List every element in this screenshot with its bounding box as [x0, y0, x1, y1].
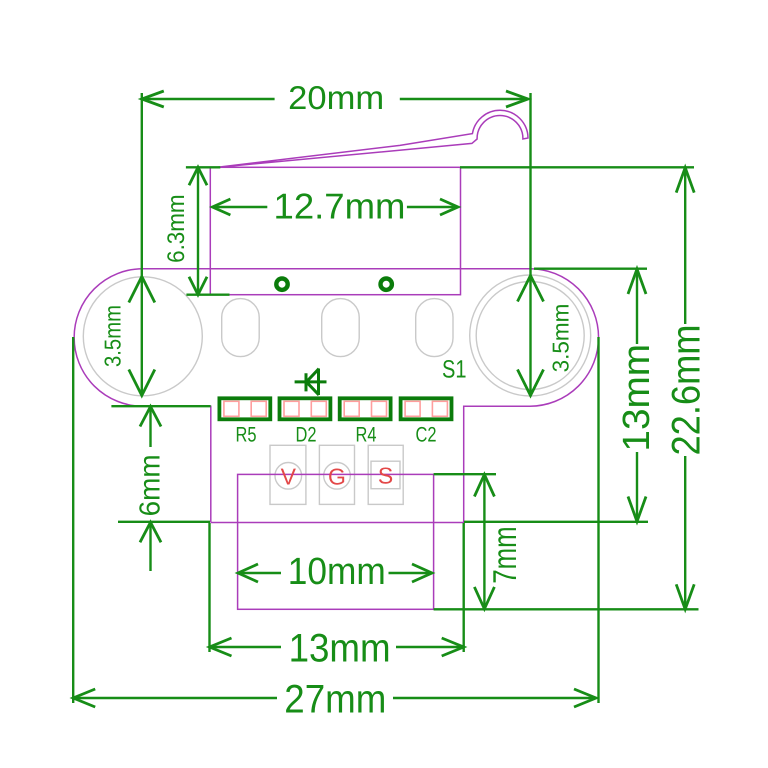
- arrowhead 6.3mm down: [189, 277, 207, 295]
- extension line 13mm bottom left: [208, 523, 210, 652]
- arrowhead 10mm left: [238, 564, 258, 582]
- svg-text:C2: C2: [416, 424, 437, 447]
- switch body outline: [210, 167, 460, 294]
- arrowhead 6mm top: [140, 407, 161, 427]
- tick 6.3mm bottom: [186, 294, 229, 296]
- svg-text:13mm: 13mm: [616, 344, 658, 452]
- diode D2 pads: [284, 401, 299, 416]
- arrowhead 20mm left: [142, 91, 164, 107]
- dimension 13mm vertical line: [636, 269, 638, 522]
- pad outline V: [270, 445, 306, 504]
- extension line 27mm right: [597, 337, 599, 703]
- pad outline G: [319, 445, 354, 504]
- svg-text:6.3mm: 6.3mm: [163, 194, 190, 263]
- arrowhead 13mm bottom left: [210, 638, 232, 656]
- switch lever with hook: [215, 110, 529, 167]
- extension line right 20mm: [529, 93, 531, 396]
- pad hole square S: [371, 461, 400, 489]
- extension line left 20mm: [141, 93, 143, 396]
- dimension 20mm line: [142, 98, 528, 100]
- svg-text:3.5mm: 3.5mm: [100, 305, 126, 367]
- dimension 6.3mm line: [197, 167, 199, 294]
- arrowhead 13mm vertical down: [628, 497, 646, 522]
- reference line 22.6mm top: [460, 166, 694, 168]
- svg-text:20mm: 20mm: [288, 79, 384, 116]
- dimension 12.7mm line: [212, 206, 458, 208]
- arrowhead 10mm right: [412, 564, 432, 582]
- arrowhead 7mm down: [474, 587, 494, 609]
- arrowhead 22.6mm up: [676, 168, 694, 193]
- slot oval 2: [322, 299, 360, 357]
- svg-text:V: V: [281, 463, 297, 489]
- arrowhead 20mm right: [506, 91, 528, 107]
- extension line 13mm bottom right: [463, 523, 465, 652]
- arrowhead 3.5mm right down: [518, 370, 544, 396]
- arrowhead 3.5mm left down: [129, 370, 155, 396]
- svg-text:3.5mm: 3.5mm: [548, 304, 574, 373]
- slot oval 3: [416, 299, 453, 357]
- pad hole circle V: [275, 463, 302, 490]
- arrowhead 6mm bottom: [140, 522, 161, 542]
- reference line 13mm top: [534, 268, 647, 270]
- tick 6.3mm top: [186, 166, 220, 168]
- dimension 22.6mm vertical line: [684, 168, 686, 610]
- dimension 10mm line: [238, 572, 432, 574]
- slot oval 1: [222, 299, 260, 357]
- extension line 27mm left: [72, 337, 74, 703]
- mounting hole circle right inner: [476, 282, 584, 390]
- arrowhead 12.7mm right: [440, 199, 458, 215]
- svg-text:G: G: [328, 463, 346, 489]
- svg-text:R4: R4: [356, 424, 377, 447]
- dimension 7mm line: [483, 475, 485, 609]
- dimension 13mm bottom line: [210, 646, 464, 648]
- switch pin hole 2: [381, 279, 392, 290]
- arrowhead 7mm up: [474, 475, 494, 497]
- diode symbol D2: [295, 369, 327, 396]
- svg-text:10mm: 10mm: [288, 551, 386, 593]
- svg-text:22.6mm: 22.6mm: [665, 325, 709, 456]
- arrowhead 27mm left: [73, 689, 95, 707]
- svg-text:13mm: 13mm: [289, 627, 391, 671]
- capacitor C2 pads: [405, 401, 420, 416]
- mounting hole circle right outer: [470, 275, 591, 396]
- reference line bottom of midsection: [118, 521, 648, 523]
- reference line 6mm top: [111, 405, 210, 407]
- board outline stadium + mid section: [74, 269, 598, 523]
- dimension 27mm line: [73, 697, 596, 699]
- reference line 7mm top: [434, 473, 496, 475]
- pad hole circle G: [324, 463, 351, 490]
- svg-text:S: S: [378, 462, 393, 488]
- resistor R4 body: [340, 398, 391, 419]
- svg-text:S1: S1: [442, 355, 467, 383]
- reference line bottom board: [434, 608, 699, 610]
- resistor R4 pads: [344, 401, 359, 416]
- dimension 6mm arrows line: [149, 407, 151, 571]
- arrowhead 3.5mm left up: [129, 277, 155, 303]
- svg-text:7mm: 7mm: [486, 526, 523, 583]
- resistor R5 pads: [224, 401, 239, 416]
- pad outline S: [368, 445, 403, 504]
- svg-text:27mm: 27mm: [284, 677, 386, 721]
- connector courtyard box: [238, 474, 434, 609]
- diode D2 body: [280, 398, 331, 419]
- arrowhead 6.3mm up: [189, 167, 207, 185]
- mounting hole circle left: [83, 277, 202, 396]
- svg-text:R5: R5: [236, 424, 257, 447]
- capacitor C2 body: [401, 398, 452, 419]
- arrowhead 13mm vertical up: [628, 269, 646, 294]
- switch pin hole 1: [276, 279, 287, 290]
- arrowhead 13mm bottom right: [442, 638, 464, 656]
- arrowhead 12.7mm left: [212, 199, 230, 215]
- arrowhead 27mm right: [574, 689, 596, 707]
- svg-text:6mm: 6mm: [135, 454, 167, 516]
- resistor R5 body: [219, 398, 270, 419]
- svg-text:D2: D2: [296, 424, 317, 447]
- svg-text:12.7mm: 12.7mm: [274, 186, 406, 227]
- arrowhead 3.5mm right up: [518, 276, 544, 302]
- arrowhead 22.6mm down: [676, 584, 694, 609]
